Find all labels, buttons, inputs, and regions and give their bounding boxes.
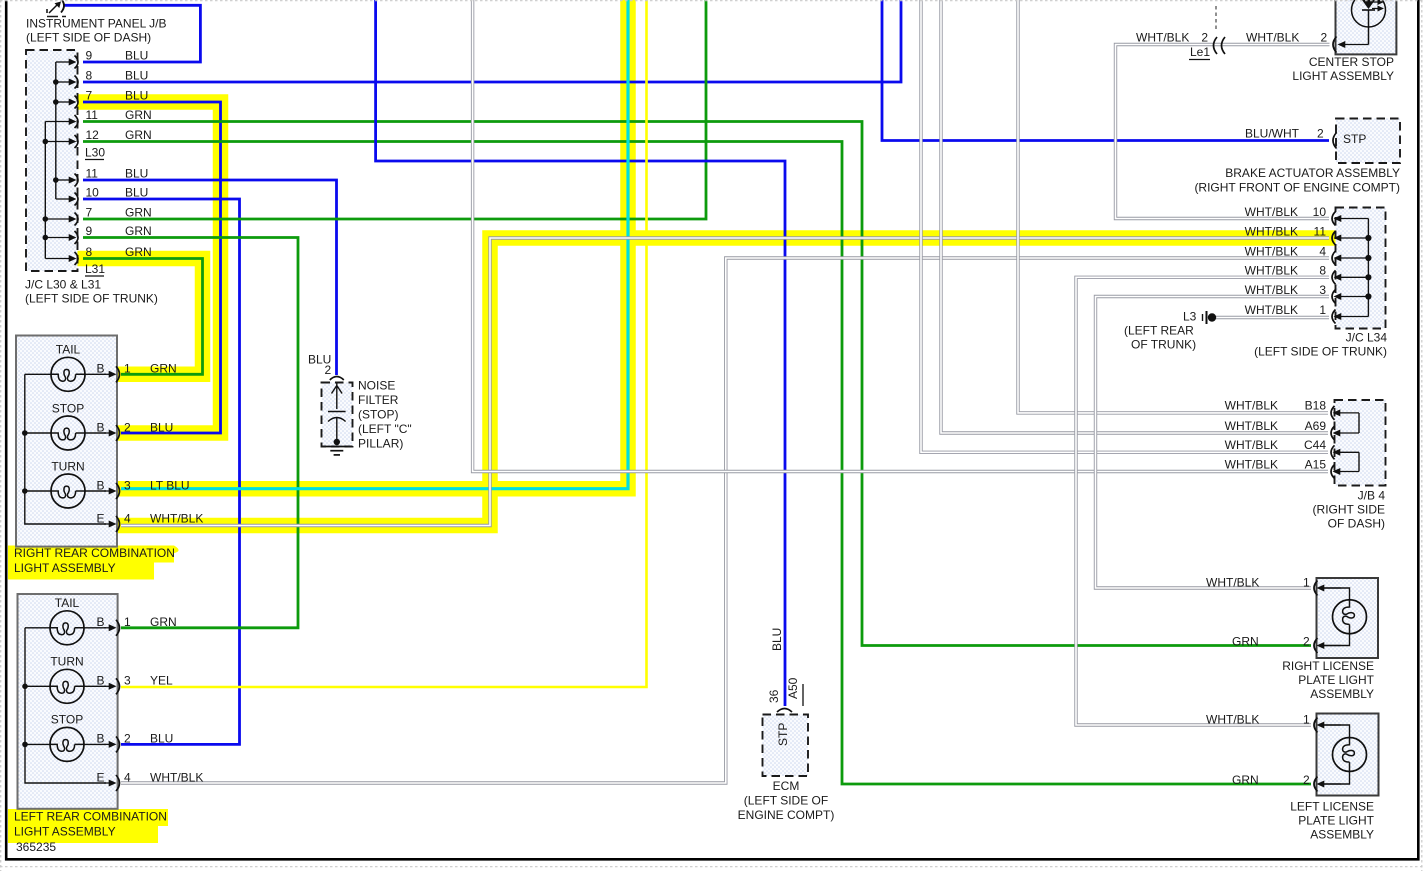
bulb TURN right rear: [25, 459, 190, 508]
bulb left license plate: [1206, 712, 1367, 791]
svg-text:NOISE: NOISE: [358, 378, 395, 392]
svg-text:4: 4: [1319, 244, 1326, 258]
svg-text:YEL: YEL: [150, 674, 173, 688]
junction dots on J/C L34 bus: [1365, 235, 1371, 300]
svg-text:TAIL: TAIL: [55, 596, 80, 610]
svg-text:ENGINE COMPT): ENGINE COMPT): [738, 808, 835, 822]
svg-text:10: 10: [1313, 205, 1327, 219]
highlighter: left rear label: [8, 809, 168, 826]
svg-text:8: 8: [1319, 264, 1326, 278]
right rear combination light assembly box: [16, 336, 117, 547]
wire BLU top to ECM pin36/A50: [376, 0, 785, 706]
svg-text:WHT/BLK: WHT/BLK: [1225, 438, 1278, 452]
highlighter: LT BLU wire right-rear pin3 to top: [118, 0, 628, 489]
wire YEL top to left-rear pin3: [121, 0, 647, 687]
wire WHT/BLK right-rear pin4 to J/C L34 pin11 (highlighted): [121, 238, 1329, 526]
svg-text:WHT/BLK: WHT/BLK: [1245, 224, 1298, 238]
junction dots on J/C L30/31 right bus: [53, 79, 59, 183]
svg-text:E: E: [97, 770, 105, 784]
bulb TURN left rear: [25, 655, 173, 704]
svg-text:PILLAR): PILLAR): [358, 436, 403, 450]
J/C L34 pin 3: [1245, 283, 1369, 304]
svg-text:(LEFT REAR: (LEFT REAR: [1124, 323, 1194, 337]
J/C L30/31 pin 9 BLU: [56, 48, 149, 68]
svg-text:1: 1: [1303, 712, 1310, 726]
svg-text:2: 2: [124, 732, 131, 746]
J/C L34 pin 4: [1245, 244, 1369, 265]
svg-text:FILTER: FILTER: [358, 393, 399, 407]
svg-text:(LEFT "C": (LEFT "C": [358, 422, 412, 436]
svg-text:7: 7: [86, 205, 93, 219]
junction connector J/C L34 box: [1336, 208, 1386, 329]
svg-text:WHT/BLK: WHT/BLK: [1206, 712, 1259, 726]
svg-text:WHT/BLK: WHT/BLK: [1245, 244, 1298, 258]
center stop light assembly box: [1336, 0, 1397, 54]
svg-text:L31: L31: [85, 262, 105, 276]
svg-text:365235: 365235: [16, 840, 56, 854]
svg-text:L3: L3: [1183, 309, 1197, 323]
svg-text:3: 3: [124, 478, 131, 492]
wire WHT/BLK top to J/B4 A15: [473, 0, 1328, 472]
left license pin 2 GRN: [1322, 783, 1342, 785]
J/C L34 pin 1: [1245, 303, 1369, 324]
J/C L34 pin 8: [1245, 264, 1369, 285]
svg-text:RIGHT REAR COMBINATION: RIGHT REAR COMBINATION: [14, 546, 175, 560]
J/C L34 pin 10: [1245, 205, 1369, 226]
svg-text:WHT/BLK: WHT/BLK: [1225, 399, 1278, 413]
svg-text:2: 2: [325, 363, 332, 377]
svg-text:TAIL: TAIL: [56, 343, 81, 357]
wire BLU J/C L31 pin10 to left-rear pin2: [83, 199, 240, 744]
bulb STOP left rear: [25, 713, 173, 762]
junction connector J/C L30 & L31 box: [26, 50, 78, 271]
wire BLU/WHT top to brake actuator STP: [882, 0, 1329, 141]
left license plate light assembly box: [1317, 714, 1379, 796]
svg-text:BLU: BLU: [125, 68, 148, 82]
svg-text:12: 12: [86, 128, 100, 142]
svg-text:GRN: GRN: [125, 205, 152, 219]
wire GRN J/C L30 pin12 to left license pin2: [83, 142, 1311, 785]
svg-text:WHT/BLK: WHT/BLK: [1206, 575, 1259, 589]
J/C L30/31 pin 11 GRN: [45, 108, 151, 128]
svg-text:STP: STP: [1343, 132, 1366, 146]
wire GRN J/C L31 pin8 to right-rear pin1 (highlighted): [83, 259, 203, 375]
svg-text:1: 1: [1319, 303, 1326, 317]
svg-text:BLU: BLU: [150, 732, 173, 746]
wire BLU J/C L30 pin8 to top: [83, 0, 901, 82]
svg-text:WHT/BLK: WHT/BLK: [1225, 457, 1278, 471]
J/B4 pin C44: [1225, 438, 1359, 459]
svg-text:WHT/BLK: WHT/BLK: [1225, 419, 1278, 433]
center stop pin 2: [1246, 30, 1369, 52]
svg-text:LT BLU: LT BLU: [150, 478, 190, 492]
svg-text:GRN: GRN: [125, 108, 152, 122]
svg-text:11: 11: [1314, 224, 1327, 238]
right license plate light assembly box: [1317, 578, 1379, 658]
svg-text:J/C L34: J/C L34: [1346, 330, 1388, 344]
junction dots right rear bus: [22, 430, 28, 494]
svg-text:E: E: [97, 511, 105, 525]
svg-text:ASSEMBLY: ASSEMBLY: [1310, 827, 1374, 841]
bulb TAIL left rear: [25, 596, 177, 645]
svg-text:GRN: GRN: [150, 615, 177, 629]
svg-text:PLATE LIGHT: PLATE LIGHT: [1298, 673, 1374, 687]
svg-text:A69: A69: [1305, 419, 1327, 433]
svg-text:B: B: [97, 674, 105, 688]
J/C L30/31 pin 10 BLU: [56, 185, 149, 205]
svg-text:WHT/BLK: WHT/BLK: [1136, 30, 1189, 44]
junction dots on J/C L30/31 left bus: [43, 139, 49, 241]
noise filter box: [322, 383, 353, 447]
svg-text:WHT/BLK: WHT/BLK: [1246, 30, 1299, 44]
svg-text:2: 2: [1303, 773, 1310, 787]
svg-text:ASSEMBLY: ASSEMBLY: [1310, 687, 1374, 701]
svg-text:LEFT REAR COMBINATION: LEFT REAR COMBINATION: [14, 809, 167, 823]
svg-text:WHT/BLK: WHT/BLK: [1245, 303, 1298, 317]
bulb right license plate: [1206, 575, 1367, 653]
svg-text:8: 8: [86, 68, 93, 82]
wire WHT/BLK top to J/B4 A69: [941, 0, 1328, 433]
svg-text:ECM: ECM: [773, 779, 800, 793]
svg-text:4: 4: [124, 770, 131, 784]
wire WHT/BLK top to J/B4 B18: [1018, 0, 1328, 413]
svg-text:GRN: GRN: [125, 224, 152, 238]
wire BLU instrument panel J/B to J/C L30 pin9: [64, 5, 200, 62]
wire GRN top to J/C L31 pin7: [83, 0, 706, 219]
center stop LED symbol: [1352, 0, 1386, 45]
svg-text:GRN: GRN: [125, 245, 152, 259]
svg-text:GRN: GRN: [1232, 773, 1259, 787]
svg-text:BLU/WHT: BLU/WHT: [1245, 126, 1300, 140]
J/C L30/31 pin 9 GRN: [45, 224, 151, 244]
svg-text:4: 4: [124, 511, 131, 525]
right license pin 2 GRN: [1322, 645, 1342, 647]
svg-text:WHT/BLK: WHT/BLK: [1245, 283, 1298, 297]
J/C L34 pin 11: [1245, 224, 1369, 245]
J/C L30/31 pin 8 BLU: [56, 68, 149, 88]
inline connector Le1: [1136, 6, 1225, 60]
wire BLU J/C L30 pin7 to right-rear pin2 (highlighted): [83, 102, 221, 433]
J/B4 bus bracket B18-A69: [1358, 413, 1360, 433]
wire LT BLU right-rear pin3 to top (highlighted): [121, 0, 628, 489]
svg-text:LEFT LICENSE: LEFT LICENSE: [1290, 799, 1374, 813]
svg-text:10: 10: [86, 185, 100, 199]
svg-text:BLU: BLU: [770, 628, 784, 651]
svg-text:LIGHT ASSEMBLY: LIGHT ASSEMBLY: [14, 824, 116, 838]
highlighter: J/C L30 pin7 BLU wire to right-rear pin2: [80, 102, 221, 433]
svg-text:GRN: GRN: [150, 362, 177, 376]
wire WHT/BLK J/C L34 pin8 to left license pin1: [1076, 277, 1329, 725]
wire WHT/BLK J/C L34 pin3 to right license pin1: [1096, 297, 1330, 589]
svg-text:(LEFT SIDE OF: (LEFT SIDE OF: [744, 793, 828, 807]
svg-text:TURN: TURN: [51, 459, 84, 473]
svg-text:2: 2: [124, 420, 131, 434]
svg-text:GRN: GRN: [125, 128, 152, 142]
svg-text:PLATE LIGHT: PLATE LIGHT: [1298, 813, 1374, 827]
wire GRN J/C L31 pin9 to left-rear pin1: [83, 238, 298, 628]
svg-text:(LEFT SIDE OF TRUNK): (LEFT SIDE OF TRUNK): [25, 291, 158, 305]
svg-text:2: 2: [1321, 30, 1328, 44]
svg-text:B: B: [97, 615, 105, 629]
svg-text:BLU: BLU: [125, 48, 148, 62]
svg-text:2: 2: [1303, 634, 1310, 648]
svg-text:B18: B18: [1305, 399, 1327, 413]
svg-text:BLU: BLU: [125, 185, 148, 199]
svg-text:L30: L30: [85, 145, 105, 159]
svg-text:(STOP): (STOP): [358, 407, 398, 421]
svg-text:3: 3: [1319, 283, 1326, 297]
svg-text:RIGHT LICENSE: RIGHT LICENSE: [1282, 659, 1374, 673]
svg-text:OF DASH): OF DASH): [1328, 516, 1385, 530]
svg-text:C44: C44: [1304, 438, 1326, 452]
svg-text:B: B: [97, 732, 105, 746]
left rear combination: internal bus: [25, 628, 106, 783]
J/C L30/31 pin 12 GRN: [45, 128, 151, 148]
right rear combination: internal bus: [25, 374, 106, 524]
wire WHT/BLK left-rear pin4 to J/C L34 pin4: [121, 258, 1329, 783]
svg-text:STOP: STOP: [52, 401, 84, 415]
svg-text:2: 2: [1201, 30, 1208, 44]
svg-text:B: B: [97, 362, 105, 376]
svg-text:STOP: STOP: [51, 713, 83, 727]
right rear pin 4 E: [97, 511, 204, 532]
svg-text:B: B: [97, 420, 105, 434]
svg-text:(RIGHT FRONT OF ENGINE COMPT): (RIGHT FRONT OF ENGINE COMPT): [1194, 180, 1400, 194]
svg-text:TURN: TURN: [50, 655, 83, 669]
svg-text:7: 7: [86, 88, 93, 102]
left rear combination light assembly box: [18, 594, 118, 809]
svg-text:(LEFT SIDE OF DASH): (LEFT SIDE OF DASH): [26, 30, 151, 44]
svg-text:9: 9: [86, 224, 93, 238]
wire GRN J/C L30 pin11 to right license pin2: [83, 122, 1311, 646]
svg-text:CENTER STOP: CENTER STOP: [1309, 55, 1394, 69]
svg-text:J/B 4: J/B 4: [1358, 488, 1386, 502]
svg-text:BRAKE ACTUATOR ASSEMBLY: BRAKE ACTUATOR ASSEMBLY: [1225, 166, 1400, 180]
ECM pin 36/A50 connector: [777, 709, 792, 713]
svg-text:STP: STP: [776, 723, 790, 746]
svg-text:1: 1: [1303, 575, 1310, 589]
ground point L3: [1183, 309, 1216, 324]
svg-text:(RIGHT SIDE: (RIGHT SIDE: [1313, 502, 1385, 516]
svg-text:WHT/BLK: WHT/BLK: [1245, 205, 1298, 219]
svg-text:WHT/BLK: WHT/BLK: [150, 511, 203, 525]
wire WHT/BLK top to J/B4 C44: [921, 0, 1328, 452]
wire WHT/BLK center stop to J/C L34 pin10 via Le1: [1116, 45, 1330, 219]
ECM box: [763, 715, 809, 777]
left rear pin 4 E: [97, 770, 204, 791]
svg-text:8: 8: [86, 245, 93, 259]
svg-text:9: 9: [86, 48, 93, 62]
J/B4 pin A69: [1225, 419, 1359, 440]
junction dots left rear bus: [22, 684, 28, 748]
J/C L30/L31 right bus (BLU pins): [55, 62, 57, 199]
bulb STOP right rear: [25, 401, 174, 450]
J/C L30/31 pin 8 GRN: [45, 245, 151, 265]
svg-text:INSTRUMENT PANEL J/B: INSTRUMENT PANEL J/B: [26, 16, 166, 30]
svg-text:BLU: BLU: [150, 420, 173, 434]
highlighter: WHT/BLK wire right-rear pin4 to J/C L34 pin11: [118, 238, 1330, 526]
svg-text:1: 1: [124, 362, 131, 376]
svg-text:A15: A15: [1305, 457, 1327, 471]
junction block J/B 4 box: [1335, 400, 1386, 486]
svg-text:3: 3: [124, 674, 131, 688]
svg-text:11: 11: [86, 166, 99, 180]
right license pin 1 WHT/BLK: [1322, 587, 1342, 589]
J/C L34 internal bus: [1367, 219, 1369, 317]
svg-text:A50: A50: [786, 677, 800, 699]
svg-text:36: 36: [767, 689, 781, 703]
svg-text:J/C L30 & L31: J/C L30 & L31: [25, 277, 101, 291]
svg-text:BLU: BLU: [125, 166, 148, 180]
bulb TAIL right rear: [25, 343, 177, 392]
brake actuator STP pin 2: [1245, 126, 1366, 148]
noise filter pin 2 connector: [330, 377, 344, 381]
svg-text:2: 2: [1317, 126, 1324, 140]
svg-text:11: 11: [86, 108, 99, 122]
svg-text:1: 1: [124, 615, 131, 629]
highlighter: J/C L31 pin8 GRN wire to right-rear pin1: [80, 259, 203, 375]
J/C L30/31 pin 7 GRN: [45, 205, 151, 225]
J/B4 pin A15: [1225, 457, 1359, 478]
wire BLU J/C L31 pin11 to noise filter: [83, 180, 337, 375]
svg-text:LIGHT ASSEMBLY: LIGHT ASSEMBLY: [1292, 69, 1394, 83]
J/B4 bus bracket C44-A15: [1358, 452, 1360, 471]
highlighter: right rear label: [8, 546, 174, 563]
left license pin 1 WHT/BLK: [1322, 724, 1342, 726]
instrument panel J/B connector fragment: [47, 0, 66, 17]
wire WHT/BLK ground L3 to J/C L34 pin1: [1216, 316, 1329, 319]
svg-text:GRN: GRN: [1232, 634, 1259, 648]
J/C L30/31 pin 11 BLU: [56, 166, 149, 186]
brake actuator STP box: [1336, 119, 1400, 164]
svg-text:WHT/BLK: WHT/BLK: [1245, 264, 1298, 278]
outer page edge dotted: [0, 0, 1423, 2]
J/B4 pin B18: [1225, 399, 1359, 420]
svg-text:BLU: BLU: [125, 88, 148, 102]
svg-text:Le1: Le1: [1190, 45, 1210, 59]
noise filter capacitor & ground: [326, 383, 348, 455]
svg-text:OF TRUNK): OF TRUNK): [1131, 337, 1196, 351]
J/C L30/L31 left bus (GRN pins): [44, 122, 46, 259]
svg-text:WHT/BLK: WHT/BLK: [150, 770, 203, 784]
svg-text:B: B: [97, 478, 105, 492]
svg-text:LIGHT ASSEMBLY: LIGHT ASSEMBLY: [14, 561, 116, 575]
J/C L30/31 pin 7 BLU: [56, 88, 149, 108]
svg-text:(LEFT SIDE OF TRUNK): (LEFT SIDE OF TRUNK): [1254, 344, 1387, 358]
